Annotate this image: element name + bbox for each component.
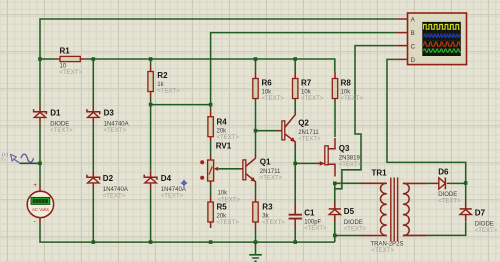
svg-text:D4: D4 [161,174,172,183]
svg-text:<TEXT>: <TEXT> [262,96,285,102]
wire D7 bottom to TR1 secondary bottom [427,222,466,236]
wire D5 bottom [334,221,336,236]
svg-text:TRAN-2P2S: TRAN-2P2S [371,242,404,248]
resistor R8 [332,71,363,102]
node bottom rail D4 [149,240,153,244]
wire R7 bottom to Q2 collector [294,99,296,114]
svg-text:A: A [411,17,415,23]
transistor Q2 [278,113,321,146]
wire D4 bottom [150,190,152,243]
potentiometer RV1 [200,141,243,203]
svg-text:D: D [411,58,416,64]
wire bottom rail right corner up [334,236,336,243]
resistor R2 [148,66,180,98]
svg-text:DIODE: DIODE [50,122,69,128]
svg-text:<T>: <T> [0,158,6,163]
svg-text:D6: D6 [438,167,449,176]
diode D7 [460,202,498,234]
resistor R4 [208,110,239,141]
svg-text:R8: R8 [341,78,352,87]
wire scope-C routed to D5 top node [335,46,397,189]
svg-text:R2: R2 [157,71,168,80]
svg-text:<TEXT>: <TEXT> [60,70,83,76]
wire R2 top [150,59,152,66]
wire D1 top segment [39,59,41,105]
svg-text:1k: 1k [157,82,164,88]
svg-text:R5: R5 [217,203,228,212]
node R6 top [254,57,258,61]
wire top rail left of R1 [40,58,55,60]
wire scope-D to D6 cathode node [387,59,466,183]
node D3 top [92,57,96,61]
wire top rail from R1 to R8 corner [85,59,334,71]
resistor R6 [253,71,285,102]
svg-text:20k: 20k [217,214,228,220]
node rail-left [38,57,42,61]
svg-text:R3: R3 [262,203,273,212]
svg-text:<TEXT>: <TEXT> [339,162,362,168]
svg-text:<TEXT>: <TEXT> [262,220,285,226]
resistor R1 [55,47,85,77]
svg-text:100pF: 100pF [304,220,321,226]
svg-text:2N3819: 2N3819 [339,155,361,161]
svg-text:<TEXT>: <TEXT> [372,248,395,254]
capacitor C1 [289,203,327,232]
diode D2 [87,171,128,200]
oscilloscope U1 [396,13,466,65]
wire meter minus to bottom rail corner [40,223,335,242]
svg-text:C: C [411,44,416,50]
svg-text:R4: R4 [217,118,228,127]
wire RV1 to R5 [210,186,212,196]
svg-text:C1: C1 [304,209,315,218]
wire node to D7 top [465,183,467,203]
wire D2 bottom [92,190,94,243]
origin marker [181,180,188,187]
wire R3 bottom [255,230,257,243]
svg-text:10k: 10k [301,90,312,96]
svg-text:<TEXT>: <TEXT> [341,96,364,102]
node R4 top / scope B [209,103,213,107]
svg-text:<TEXT>: <TEXT> [298,137,321,143]
svg-text:<TEXT>: <TEXT> [260,176,283,182]
node bottom rail C1 [293,240,297,244]
svg-text:AC Volts: AC Volts [32,207,50,212]
wire scope-A to top-left rail corner [40,19,396,59]
wire R7 top [294,59,296,71]
svg-text:1N4740A: 1N4740A [103,187,128,193]
node AC source [38,162,42,166]
svg-text:Q1: Q1 [260,158,271,167]
svg-text:TR1: TR1 [372,168,388,177]
node R7 top [293,57,297,61]
svg-text:<TEXT>: <TEXT> [438,198,461,204]
wire R4 to RV1 [210,141,212,155]
svg-text:Q3: Q3 [339,144,350,153]
wire D6 cathode to node [450,182,465,184]
svg-text:DIODE: DIODE [475,222,494,228]
diode D4 [144,171,186,200]
svg-text:DIODE: DIODE [344,220,363,226]
wire R2 bottom to R4 node [151,98,211,111]
svg-text:B: B [411,31,415,37]
transistor Q3 [316,138,362,177]
transistor Q1 [243,155,283,185]
resistor R5 [208,196,239,229]
svg-text:(+): (+) [2,152,8,157]
wire R6 bottom to Q1 collector [255,99,257,156]
svg-text:+: + [33,182,37,189]
svg-text:DIODE: DIODE [438,192,457,198]
svg-text:<TEXT>: <TEXT> [217,135,240,141]
wire node to C1 top [294,163,296,203]
wire D3 to D2 [92,124,94,171]
svg-text:Q2: Q2 [298,119,309,128]
AC source V1 [0,152,34,163]
ground [249,242,262,261]
svg-text:<TEXT>: <TEXT> [301,96,324,102]
svg-text:D3: D3 [104,108,115,117]
svg-text:<TEXT>: <TEXT> [218,197,241,203]
svg-text:10k: 10k [262,90,273,96]
wire node to TR1 primary top [335,182,362,184]
svg-text:<TEXT>: <TEXT> [475,228,498,234]
svg-text:R6: R6 [262,78,273,87]
node bottom rail R3/ground [254,240,258,244]
svg-text:<TEXT>: <TEXT> [161,194,184,200]
node R2 bottom [149,103,153,107]
wire Q2 emitter to node [294,144,296,163]
node D5 bottom / TR1 primary return [333,234,337,238]
svg-text:RV1: RV1 [216,141,232,150]
svg-text:D2: D2 [103,174,114,183]
svg-text:D5: D5 [344,207,355,216]
node bottom rail R5 [209,240,213,244]
meter AC voltmeter [27,182,53,226]
diode D3 [87,105,129,134]
svg-text:<TEXT>: <TEXT> [50,128,73,134]
node R2 top [149,57,153,61]
wire R6 top [255,59,257,71]
wire D3 top [92,59,94,105]
svg-text:2N1711: 2N1711 [298,130,319,136]
svg-text:D7: D7 [475,209,486,218]
svg-text:<TEXT>: <TEXT> [344,227,367,233]
svg-text:<TEXT>: <TEXT> [103,194,126,200]
wire RV1 wiper to Q1 base [218,168,239,170]
diode D6 [431,167,461,204]
diode D1 [34,105,73,134]
node Q3 source / TR1 / D5 [333,182,337,186]
wire node to Q3 gate [295,162,316,164]
resistor R7 [293,71,324,102]
svg-text:10k: 10k [218,191,229,197]
transformer TR1 [362,168,427,254]
svg-text:D1: D1 [50,108,61,117]
wire TR1 primary bottom to rail node [335,235,362,237]
wire scope-B to R4 top node [211,33,397,105]
svg-text:<TEXT>: <TEXT> [304,226,327,232]
wire R8 bottom to Q3 drain [334,99,336,138]
wire D5 top [334,183,336,202]
node D6 cathode / D7 [464,181,468,185]
node bottom rail D2 [92,240,96,244]
wire D1 to AC node and meter [39,124,41,186]
svg-text:2N1711: 2N1711 [260,169,281,175]
svg-text:10k: 10k [341,90,352,96]
svg-text:R7: R7 [301,78,312,87]
svg-text:<TEXT>: <TEXT> [104,128,127,134]
svg-text:20k: 20k [217,129,228,135]
resistor R3 [253,195,285,230]
wire AC source tail [20,162,40,164]
node Q2 emitter / Q3 gate / C1 [293,162,297,166]
wire TR1 secondary top to D6 [427,182,431,184]
svg-text:1N4740A: 1N4740A [104,122,129,128]
svg-text:1N4740A: 1N4740A [161,187,186,193]
svg-text:10: 10 [60,64,67,70]
node Q2 base tap [254,129,258,133]
wire Q2 base [256,130,279,132]
svg-text:R1: R1 [60,47,71,56]
wire C1 bottom [294,228,296,242]
wire D4 top [150,105,152,171]
diode D5 [329,202,367,232]
wire Q1 emitter to R3 [255,185,257,196]
svg-text:<TEXT>: <TEXT> [217,220,240,226]
svg-text:<TEXT>: <TEXT> [157,89,180,95]
svg-text:3k: 3k [262,214,269,220]
